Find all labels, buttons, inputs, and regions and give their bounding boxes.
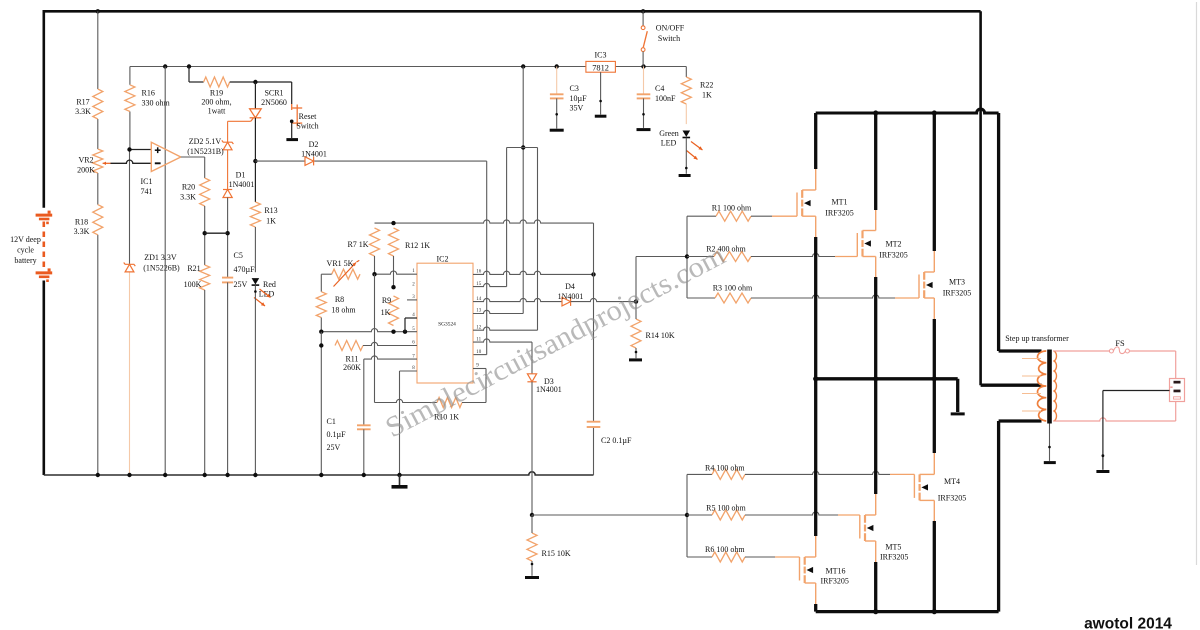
- svg-text:FS: FS: [1115, 339, 1125, 348]
- transistor MT2 IRF3205: [856, 233, 858, 257]
- wire MT4 source up: [933, 452, 935, 474]
- svg-text:IC2: IC2: [437, 255, 449, 264]
- junction ground rail C5: [225, 473, 229, 477]
- svg-text:R20: R20: [182, 183, 195, 192]
- potentiometer VR1: [332, 269, 360, 279]
- wire C2 column: [593, 274, 595, 421]
- junction ground rail C1: [362, 473, 366, 477]
- switch ON/OFF: [642, 11, 644, 25]
- wire D2 column to pin10: [486, 161, 488, 355]
- wire pin4 stub and drop: [405, 317, 417, 319]
- transformer core: [1047, 350, 1052, 424]
- diode D2 1N4001: [305, 157, 314, 166]
- resistor R22: [681, 77, 691, 104]
- ground IC3: [595, 115, 607, 118]
- resistor R21: [200, 265, 210, 290]
- arrows red LED: [260, 289, 271, 298]
- svg-text:18 ohm: 18 ohm: [331, 306, 356, 315]
- svg-text:R19: R19: [210, 89, 223, 98]
- svg-text:MT16: MT16: [826, 567, 846, 576]
- wire R13 to red LED: [254, 227, 256, 272]
- wire SCR gate from ZD2: [228, 120, 251, 122]
- svg-text:Green: Green: [659, 129, 679, 138]
- battery BT1 polarity marks cell2: [48, 268, 51, 271]
- transistor MT5 IRF3205: [859, 515, 861, 539]
- wire red LED to ground rail: [254, 285, 256, 475]
- wire R16 ZD1 column: [129, 67, 131, 85]
- wire IC3 ground pin: [600, 72, 602, 114]
- wire MT3 drain up: [933, 250, 935, 272]
- wire transformer frame ground: [1049, 424, 1051, 461]
- resistor R1: [716, 211, 751, 221]
- svg-text:100K: 100K: [184, 280, 202, 289]
- ground R14: [629, 358, 642, 361]
- junction source bus MT2 MT5: [873, 376, 878, 381]
- junction ground rail opamp: [163, 473, 167, 477]
- wire upper gate bus: [686, 216, 688, 298]
- junction rail to switch and C4: [641, 64, 645, 68]
- capacitor C2 0.1uF: [587, 421, 601, 423]
- op-amp U1 IC1 741 triangle: [151, 142, 181, 171]
- junction source bus MT1 MT16: [813, 376, 818, 381]
- resistor R5: [712, 510, 745, 520]
- junction pin16 C2 column: [591, 272, 595, 276]
- svg-text:battery: battery: [14, 256, 36, 265]
- wire collector column pin15: [506, 148, 508, 287]
- wire R22 feed: [685, 67, 687, 78]
- svg-text:Switch: Switch: [296, 122, 318, 131]
- svg-text:D1: D1: [236, 171, 246, 180]
- svg-text:10µF: 10µF: [570, 94, 588, 103]
- resistor R2: [714, 252, 751, 262]
- battery BT1 dashed middle link: [42, 222, 45, 269]
- svg-text:ZD2 5.1V: ZD2 5.1V: [189, 137, 222, 146]
- svg-text:1N4001: 1N4001: [536, 385, 562, 394]
- wire R15 leads: [531, 515, 533, 533]
- transformer T1 primary winding: [1038, 351, 1047, 421]
- junction pin1 VR1 R7: [372, 272, 376, 276]
- wire battery rail down right: [979, 11, 982, 385]
- svg-text:C1: C1: [327, 417, 336, 426]
- thyristor SCR1 2N5060: [250, 109, 262, 118]
- svg-text:C3: C3: [570, 84, 579, 93]
- wire ground rail: [44, 472, 594, 475]
- wire MT16 drain down: [815, 583, 817, 605]
- svg-text:awotol 2014: awotol 2014: [1084, 616, 1172, 630]
- wire C5 to ground rail: [227, 282, 229, 475]
- junction SCR cathode D2 branch: [253, 159, 257, 163]
- svg-text:VR1 5K: VR1 5K: [327, 259, 354, 268]
- svg-text:VR2: VR2: [78, 156, 93, 165]
- wire socket neutral to ground: [1103, 390, 1170, 392]
- wire R5 row: [687, 514, 712, 516]
- svg-text:IRF3205: IRF3205: [880, 553, 908, 562]
- diode D1 1N4001: [223, 189, 232, 191]
- diode D4 1N4001: [562, 297, 571, 306]
- ground main rail symbol: [399, 475, 401, 485]
- svg-text:3.3K: 3.3K: [75, 107, 91, 116]
- wire fuse to socket: [1129, 350, 1175, 352]
- resistor R13: [250, 202, 260, 227]
- junction R12 top: [391, 221, 395, 225]
- wire R4 to MT4 gate: [745, 471, 890, 474]
- regulator IC3 7812 box: [586, 61, 616, 72]
- wire R3 row: [687, 297, 715, 299]
- wire pin7 row: [364, 356, 417, 359]
- wire pin11 row: [473, 339, 532, 342]
- junction R9 bottom: [391, 330, 395, 334]
- ground C3: [550, 129, 564, 132]
- ground socket neutral: [1096, 470, 1109, 473]
- battery BT1 plates cell2: [36, 271, 53, 274]
- svg-text:IRF3205: IRF3205: [938, 494, 966, 503]
- wire R6 to MT16 gate: [745, 556, 775, 558]
- wire top drain bus: [816, 109, 999, 113]
- LED green: [683, 131, 691, 137]
- wire supply column to pin13: [522, 67, 524, 314]
- wire pin15 row: [473, 283, 507, 286]
- transistor MT4 IRF3205: [913, 474, 915, 498]
- svg-text:25V: 25V: [327, 443, 341, 452]
- svg-text:MT4: MT4: [944, 477, 960, 486]
- svg-text:1N4001: 1N4001: [229, 180, 255, 189]
- svg-text:R22: R22: [700, 81, 713, 90]
- resistor R3: [715, 293, 751, 303]
- junction rail to R19: [187, 64, 191, 68]
- wire green LED to ground: [685, 138, 687, 174]
- resistor R11: [335, 341, 363, 351]
- svg-text:260K: 260K: [343, 363, 361, 372]
- wire R5 to MT5 gate: [745, 512, 838, 515]
- wire C4 drop: [643, 67, 645, 95]
- wire source ground bus: [816, 377, 958, 380]
- wire ZD2 to D1: [227, 150, 229, 190]
- svg-text:R21: R21: [187, 264, 200, 273]
- wire pin1 row: [375, 271, 418, 274]
- svg-text:MT2: MT2: [886, 240, 902, 249]
- svg-text:ON/OFF: ON/OFF: [656, 24, 685, 33]
- svg-text:3.3K: 3.3K: [74, 227, 90, 236]
- svg-text:C2 0.1µF: C2 0.1µF: [601, 436, 632, 445]
- svg-text:MT5: MT5: [885, 543, 901, 552]
- wire top bus to transformer top: [997, 113, 1000, 351]
- junction opamp plus input: [127, 147, 131, 151]
- IC U2 SG3524 box: [417, 263, 473, 383]
- svg-text:7812: 7812: [592, 63, 609, 72]
- ground source bus: [951, 412, 965, 415]
- wire C1 to ground rail: [363, 429, 365, 475]
- wire R6 row: [687, 556, 712, 558]
- pushbutton reset switch: [292, 107, 302, 109]
- wire divider column: [97, 11, 99, 89]
- svg-text:(1N5226B): (1N5226B): [143, 264, 180, 273]
- wire bottom bus to transformer bottom: [997, 421, 1000, 612]
- wire pin16 row: [473, 271, 594, 274]
- wire pin3 stub: [407, 299, 417, 301]
- resistor R14: [631, 319, 641, 348]
- ground reset switch: [286, 138, 298, 141]
- junction upper gate bus R2: [685, 254, 689, 258]
- wire MT2 drain up: [875, 209, 877, 231]
- junction D1 C5 link: [225, 231, 229, 235]
- svg-text:R14 10K: R14 10K: [646, 331, 675, 340]
- wire lower gate feed row: [532, 514, 687, 516]
- transistor MT3 IRF3205: [918, 275, 920, 299]
- wire C4 to ground: [643, 98, 645, 128]
- wire reset switch to ground: [291, 121, 293, 138]
- svg-text:470µF: 470µF: [234, 265, 256, 274]
- wire R3 to MT3 gate: [751, 295, 895, 298]
- wire R8 to pin5 row: [320, 318, 322, 332]
- junction rail to opamp supply: [163, 64, 167, 68]
- junction rail to SG3524 supply column: [521, 64, 525, 68]
- ground transformer: [1044, 461, 1056, 464]
- wire R11 to pin6: [363, 342, 417, 345]
- wire opamp inverting input from VR2 wiper: [111, 160, 152, 163]
- svg-text:11: 11: [476, 337, 481, 342]
- svg-text:R15 10K: R15 10K: [542, 549, 571, 558]
- potentiometer VR2: [93, 149, 103, 173]
- svg-text:200K: 200K: [77, 166, 95, 175]
- junction top bus MT3: [932, 110, 937, 115]
- svg-text:cycle: cycle: [17, 246, 34, 255]
- wire left battery feed lower: [42, 281, 45, 476]
- svg-text:R6 100 ohm: R6 100 ohm: [705, 545, 745, 554]
- wire MT1 source down: [815, 216, 817, 238]
- svg-text:IC1: IC1: [141, 177, 153, 186]
- junction pin4 drop: [403, 330, 407, 334]
- junction ground rail bias bus: [319, 473, 323, 477]
- junction bottom bus MT4: [932, 609, 937, 614]
- junction ground rail pin8: [397, 473, 401, 477]
- svg-text:1N4001: 1N4001: [558, 292, 584, 301]
- junction R8 bottom: [319, 330, 323, 334]
- junction supply column collector tie: [521, 145, 525, 149]
- svg-text:IRF3205: IRF3205: [820, 577, 848, 586]
- wire regulated rail right section: [615, 66, 686, 68]
- wire R19 feed: [188, 67, 190, 83]
- junction ground rail ZD1: [127, 473, 131, 477]
- battery BT1 12V plates cell1: [36, 214, 53, 217]
- wire D2 row: [255, 160, 305, 162]
- wire MT5 source up: [875, 493, 877, 515]
- wire opamp supply column through triangle: [164, 67, 166, 476]
- wire pin13 row: [473, 310, 523, 313]
- wire opamp output: [181, 156, 205, 158]
- wire secondary top to fuse: [1053, 350, 1109, 352]
- wire R22 to green LED: [685, 104, 687, 124]
- svg-text:741: 741: [141, 187, 153, 196]
- svg-text:R4 100 ohm: R4 100 ohm: [705, 464, 745, 473]
- svg-text:D4: D4: [565, 282, 575, 291]
- svg-text:Step up transformer: Step up transformer: [1005, 334, 1069, 343]
- junction top bus MT2: [873, 110, 878, 115]
- wire R2 to MT2 gate: [751, 253, 835, 256]
- wire left bias bus: [320, 332, 322, 475]
- svg-text:1watt: 1watt: [208, 107, 227, 116]
- svg-text:(1N5231B): (1N5231B): [187, 147, 224, 156]
- op-amp plus symbol: [155, 149, 161, 151]
- wire R7 to pin1 node: [374, 256, 376, 274]
- wire D1 to C5: [227, 198, 229, 278]
- junction source bus MT3 MT4: [932, 376, 937, 381]
- wire R13 top: [254, 201, 256, 203]
- wire collector column pin12: [537, 148, 539, 331]
- ground R15: [525, 576, 539, 579]
- wire link R20 junction to C5 column: [205, 232, 228, 234]
- resistor R9: [389, 296, 399, 326]
- wire pin1 node to R10: [374, 274, 376, 402]
- svg-text:IRF3205: IRF3205: [943, 289, 971, 298]
- transistor MT1 IRF3205: [796, 193, 798, 217]
- svg-text:C4: C4: [655, 84, 664, 93]
- transistor MT16 IRF3205: [799, 557, 801, 581]
- capacitor C3 10uF: [550, 93, 564, 95]
- svg-text:IRF3205: IRF3205: [879, 251, 907, 260]
- svg-text:12: 12: [476, 325, 482, 330]
- junction R9 top pin2: [391, 285, 395, 289]
- wire R10 row right and pin9 leg: [462, 402, 486, 404]
- LED red: [252, 278, 260, 284]
- diode D3 1N4001: [527, 374, 536, 382]
- resistor R16: [125, 85, 135, 112]
- svg-text:C5: C5: [234, 251, 243, 260]
- wire R14 to ground: [635, 348, 637, 358]
- svg-text:R3 100 ohm: R3 100 ohm: [713, 284, 753, 293]
- svg-text:Reset: Reset: [299, 112, 318, 121]
- junction rail to C3: [555, 64, 559, 68]
- wire pin4 pin5 row: [321, 329, 417, 332]
- wire R10 row left: [375, 399, 438, 402]
- svg-text:14: 14: [476, 297, 482, 302]
- svg-text:3.3K: 3.3K: [180, 193, 196, 202]
- zener ZD2 5.1V: [222, 140, 234, 144]
- resistor R6: [712, 552, 745, 562]
- svg-text:10: 10: [476, 350, 482, 355]
- battery BT1 polarity marks cell1: [48, 211, 51, 214]
- resistor R18: [93, 205, 103, 235]
- wire MT1 drain up: [815, 168, 817, 190]
- wire secondary bottom: [1053, 418, 1175, 421]
- wire rail corner to C2 junction: [593, 223, 595, 274]
- wire +12V battery positive top rail: [44, 10, 981, 13]
- resistor R12: [389, 228, 399, 256]
- svg-text:1N4001: 1N4001: [301, 150, 327, 159]
- svg-text:SG3524: SG3524: [438, 322, 456, 328]
- capacitor C1 0.1uF: [357, 424, 371, 426]
- svg-text:LED: LED: [661, 139, 677, 148]
- wire pin7 to C1: [363, 359, 365, 425]
- svg-text:35V: 35V: [570, 104, 584, 113]
- wire MT3 source down: [933, 298, 935, 320]
- wire MT16 source up: [815, 535, 817, 557]
- junction R20 R21: [203, 231, 207, 235]
- wire R19 to SCR and reset switch: [230, 81, 292, 83]
- svg-text:IRF3205: IRF3205: [825, 209, 853, 218]
- wire SCR cathode: [254, 118, 256, 202]
- svg-text:MT1: MT1: [832, 198, 848, 207]
- socket output: [1170, 379, 1185, 402]
- svg-text:R9: R9: [382, 296, 391, 305]
- svg-text:1K: 1K: [266, 217, 276, 226]
- wire left battery feed upper: [42, 10, 45, 208]
- fuse FS: [1109, 349, 1113, 353]
- wire collector tie horizontal: [507, 147, 538, 149]
- wire R7R12 top rail: [375, 220, 594, 223]
- wire D4 to R14: [571, 298, 636, 301]
- svg-text:25V: 25V: [234, 280, 248, 289]
- svg-text:R12 1K: R12 1K: [405, 241, 430, 250]
- svg-text:R5 100 ohm: R5 100 ohm: [706, 504, 746, 513]
- svg-text:ZD1 3.3V: ZD1 3.3V: [144, 253, 177, 262]
- svg-text:MT3: MT3: [949, 278, 965, 287]
- wire R2 row: [687, 256, 714, 258]
- svg-text:R1 100 ohm: R1 100 ohm: [712, 204, 752, 213]
- wire opamp noninverting input: [130, 149, 152, 151]
- svg-text:2N5060: 2N5060: [261, 98, 287, 107]
- wire right edge faint border: [1196, 2, 1198, 565]
- resistor R8: [316, 292, 326, 318]
- wire lower gate bus: [686, 474, 688, 557]
- wire SCR anode: [254, 82, 256, 109]
- wire reset switch drop: [291, 82, 293, 104]
- junction bottom bus MT5: [873, 609, 878, 614]
- capacitor C5 470uF: [222, 277, 233, 279]
- wire pin8 to ground rail: [400, 370, 418, 372]
- wire pin14 row to D4: [473, 298, 562, 301]
- wire D3 to lower gate bus: [531, 382, 533, 515]
- arrows green LED: [691, 142, 703, 151]
- svg-text:Red: Red: [263, 280, 276, 289]
- junction top rail to ON/OFF switch: [641, 9, 645, 13]
- wire R21 to ground rail: [204, 290, 206, 475]
- wire R20 to R21: [204, 206, 206, 265]
- wire R1 row: [687, 215, 716, 217]
- resistor R17: [93, 89, 103, 119]
- wire MT4 drain down: [933, 500, 935, 522]
- wire C3 to ground: [556, 98, 558, 128]
- wire MT5 drain down: [875, 541, 877, 563]
- wire VR1 left corner: [321, 273, 331, 275]
- junction ground rail R21: [203, 473, 207, 477]
- junction top rail to R17 divider: [96, 9, 100, 13]
- wire bottom drain bus: [816, 610, 999, 613]
- junction lower gate bus R5: [685, 513, 689, 517]
- svg-text:D2: D2: [309, 140, 319, 149]
- svg-text:1K: 1K: [381, 308, 391, 317]
- svg-text:R7 1K: R7 1K: [347, 240, 368, 249]
- wire ZD2 top: [227, 121, 229, 142]
- svg-text:330 ohm: 330 ohm: [142, 99, 171, 108]
- svg-text:IC3: IC3: [595, 51, 607, 60]
- ground green LED: [679, 174, 691, 177]
- wire R4 row: [687, 473, 712, 475]
- junction D4 R14: [634, 299, 638, 303]
- svg-text:1K: 1K: [702, 91, 712, 100]
- op-amp minus symbol: [155, 162, 161, 164]
- svg-text:R16: R16: [142, 89, 155, 98]
- ground C4: [637, 128, 651, 131]
- junction ground rail R18: [96, 473, 100, 477]
- svg-text:R17: R17: [76, 98, 89, 107]
- capacitor C4 100nF: [637, 93, 651, 95]
- resistor R7: [370, 228, 380, 256]
- svg-text:200 ohm,: 200 ohm,: [201, 98, 231, 107]
- transformer T1 secondary winding: [1053, 351, 1056, 421]
- wire source bus ground drop: [956, 379, 959, 412]
- resistor R4: [712, 469, 745, 479]
- resistor R19: [204, 77, 230, 87]
